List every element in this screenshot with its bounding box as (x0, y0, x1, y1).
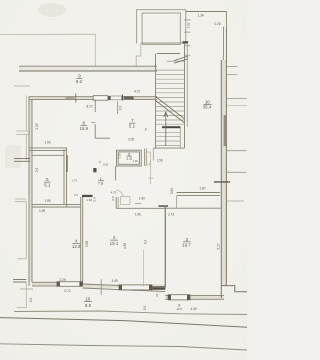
svg-text:1.73: 1.73 (72, 179, 78, 183)
svg-text:11: 11 (178, 303, 182, 307)
svg-text:0.9: 0.9 (118, 106, 122, 111)
svg-text:4.38: 4.38 (123, 243, 127, 249)
svg-text:1.46: 1.46 (133, 159, 139, 163)
svg-text:3.4: 3.4 (144, 240, 148, 245)
svg-text:4.70: 4.70 (111, 190, 117, 194)
svg-text:5.1: 5.1 (129, 123, 136, 128)
svg-text:5.27: 5.27 (217, 243, 221, 249)
svg-text:0.69: 0.69 (170, 188, 174, 194)
svg-text:0.72: 0.72 (65, 289, 71, 293)
svg-text:42.9: 42.9 (177, 307, 183, 311)
svg-text:1.16: 1.16 (118, 153, 122, 159)
svg-text:2.55: 2.55 (35, 123, 39, 129)
svg-text:0.9: 0.9 (29, 298, 33, 303)
svg-text:15.9: 15.9 (79, 126, 88, 131)
svg-text:2.29: 2.29 (60, 278, 66, 282)
svg-text:1.80: 1.80 (139, 197, 145, 201)
svg-text:8.72: 8.72 (87, 104, 93, 108)
svg-text:1.63: 1.63 (86, 198, 92, 202)
svg-text:3: 3 (145, 128, 147, 132)
svg-text:12.8: 12.8 (72, 244, 81, 249)
svg-text:35.4: 35.4 (203, 105, 212, 110)
svg-text:19.7: 19.7 (182, 243, 191, 248)
svg-text:3.58: 3.58 (85, 241, 89, 247)
svg-text:5.1: 5.1 (44, 182, 51, 187)
svg-text:4.00: 4.00 (191, 307, 197, 311)
svg-text:1.99: 1.99 (45, 199, 51, 203)
svg-text:9.5: 9.5 (85, 303, 92, 308)
svg-text:1.99: 1.99 (45, 141, 51, 145)
svg-text:5: 5 (156, 294, 158, 298)
svg-text:0.62: 0.62 (103, 163, 109, 167)
svg-text:2.05: 2.05 (128, 138, 134, 142)
svg-text:19.1: 19.1 (110, 241, 119, 246)
svg-text:1.5: 1.5 (126, 156, 132, 161)
svg-text:3.4: 3.4 (74, 193, 78, 197)
svg-text:3.28: 3.28 (187, 22, 191, 28)
svg-text:0.9: 0.9 (93, 197, 97, 202)
svg-text:2.87: 2.87 (200, 187, 206, 191)
svg-text:0.9: 0.9 (143, 306, 147, 311)
svg-text:0.9: 0.9 (111, 196, 115, 201)
svg-text:0.26: 0.26 (215, 22, 221, 26)
svg-text:9.2: 9.2 (76, 79, 83, 84)
svg-text:2.6: 2.6 (35, 168, 39, 173)
svg-text:4.72: 4.72 (134, 90, 140, 94)
svg-text:1.59: 1.59 (157, 158, 163, 162)
svg-text:10: 10 (85, 296, 90, 301)
svg-text:3.45: 3.45 (112, 279, 118, 283)
svg-text:1.96: 1.96 (135, 212, 141, 216)
svg-text:1.99: 1.99 (39, 209, 45, 213)
svg-text:7.8: 7.8 (98, 181, 104, 186)
svg-text:3.73: 3.73 (168, 213, 174, 217)
svg-text:1.34: 1.34 (198, 14, 204, 18)
